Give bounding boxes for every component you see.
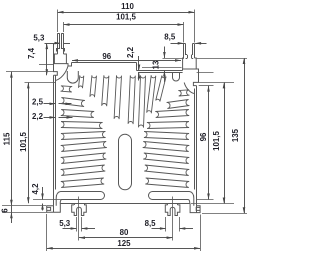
right fin slot R4 <box>147 122 189 129</box>
left fin slot L6 <box>61 142 107 152</box>
step between plates <box>136 63 138 71</box>
left fin slot L3 <box>61 110 94 118</box>
top fin slot A2 <box>79 75 84 88</box>
top surface right plate <box>137 71 183 73</box>
bottom-right corner foot <box>190 204 200 213</box>
svg-text:8,5: 8,5 <box>145 219 157 228</box>
dimension 2,5 left <box>32 97 71 106</box>
svg-text:101,5: 101,5 <box>19 132 28 152</box>
left fin slot L7 <box>61 153 107 164</box>
dimension 8,5 bottom <box>145 217 193 232</box>
svg-text:115: 115 <box>3 132 12 145</box>
dimension 5,3 top-left <box>33 34 70 45</box>
left fin slot L8 <box>61 165 106 176</box>
top mounting surface left plate <box>72 62 137 64</box>
left fin slot L9 <box>61 178 104 188</box>
dimension 96 top <box>72 52 181 62</box>
bottom plate <box>60 200 190 204</box>
top fin slot A3 <box>90 75 97 97</box>
svg-text:6: 6 <box>1 208 10 213</box>
left fin slot L5 <box>61 132 106 140</box>
svg-text:96: 96 <box>102 52 111 61</box>
top fin slot B1 <box>139 75 146 127</box>
svg-text:101,5: 101,5 <box>212 131 221 151</box>
bottom-left corner foot <box>47 204 61 213</box>
dimension 4,2 <box>31 183 62 211</box>
left fin slot L4 <box>61 122 103 129</box>
central oval screw channel <box>119 134 132 190</box>
right fin slot R7 <box>143 153 189 164</box>
dimension 8,5 top-right <box>164 33 206 45</box>
left fin slot L1 <box>61 86 73 92</box>
svg-text:110: 110 <box>121 2 134 11</box>
dimension 125 bottom <box>47 214 201 251</box>
svg-text:4,2: 4,2 <box>31 183 40 195</box>
svg-text:5,3: 5,3 <box>33 34 45 43</box>
dimension 110 top <box>58 2 195 43</box>
dimension 101,5 top <box>64 13 184 43</box>
dimension 7,4 <box>27 43 54 75</box>
dimension 6 <box>1 206 46 224</box>
svg-text:2,5: 2,5 <box>32 97 44 106</box>
top-left T-slot mounting channel <box>54 33 72 75</box>
dimension 80 bottom <box>79 197 173 241</box>
right outer wall <box>195 86 197 206</box>
right fin slot R9 <box>145 178 189 188</box>
left outer wall <box>54 75 56 206</box>
svg-text:5,3: 5,3 <box>59 219 71 228</box>
dimension 101,5 left <box>19 82 56 203</box>
svg-text:8,5: 8,5 <box>164 33 176 42</box>
svg-text:135: 135 <box>231 128 240 142</box>
right fin slot R5 <box>144 132 189 140</box>
right fin slot R1 <box>178 90 189 96</box>
bottom-right inner mounting foot <box>165 204 180 216</box>
left fin slot L2 <box>61 98 85 107</box>
top fin slot A5 <box>114 75 121 119</box>
right fin slot R3 <box>155 110 189 118</box>
top fin slot B3 <box>156 76 166 102</box>
dimension 135 right <box>197 58 247 214</box>
right wall top notch <box>184 83 194 94</box>
svg-text:2,2: 2,2 <box>32 112 44 121</box>
dimension 5,3 bottom <box>59 217 95 232</box>
top fin slot B2 <box>147 75 156 113</box>
top fin slot A4 <box>102 75 109 106</box>
bottom-left wide slot with inlet <box>56 192 104 206</box>
top funnel slot B4 <box>173 73 180 81</box>
svg-text:2,2: 2,2 <box>126 46 135 58</box>
svg-text:13: 13 <box>152 60 161 69</box>
dimension 2,2 top <box>126 46 140 80</box>
svg-text:125: 125 <box>117 239 131 248</box>
right fin slot R6 <box>143 142 190 152</box>
dimension 115 left <box>2 72 53 213</box>
dimension 96 right <box>197 73 214 200</box>
svg-text:80: 80 <box>120 228 129 237</box>
top-right T-slot mounting channel <box>183 44 199 86</box>
dimension 101,5 right <box>191 82 234 203</box>
svg-text:96: 96 <box>199 132 208 141</box>
top funnel slot A1 <box>67 71 78 83</box>
left wall top notch <box>56 66 69 81</box>
bottom-right wide slot with inlet <box>149 192 194 206</box>
dimension 2,2 left <box>32 112 72 121</box>
top fin slot A6 <box>128 75 135 124</box>
svg-text:101,5: 101,5 <box>116 13 136 22</box>
bottom-left inner mounting foot <box>72 204 87 216</box>
right fin slot R8 <box>144 165 189 176</box>
dimension 13 <box>142 47 184 83</box>
right fin slot R2 <box>167 100 190 109</box>
svg-text:7,4: 7,4 <box>27 47 36 59</box>
